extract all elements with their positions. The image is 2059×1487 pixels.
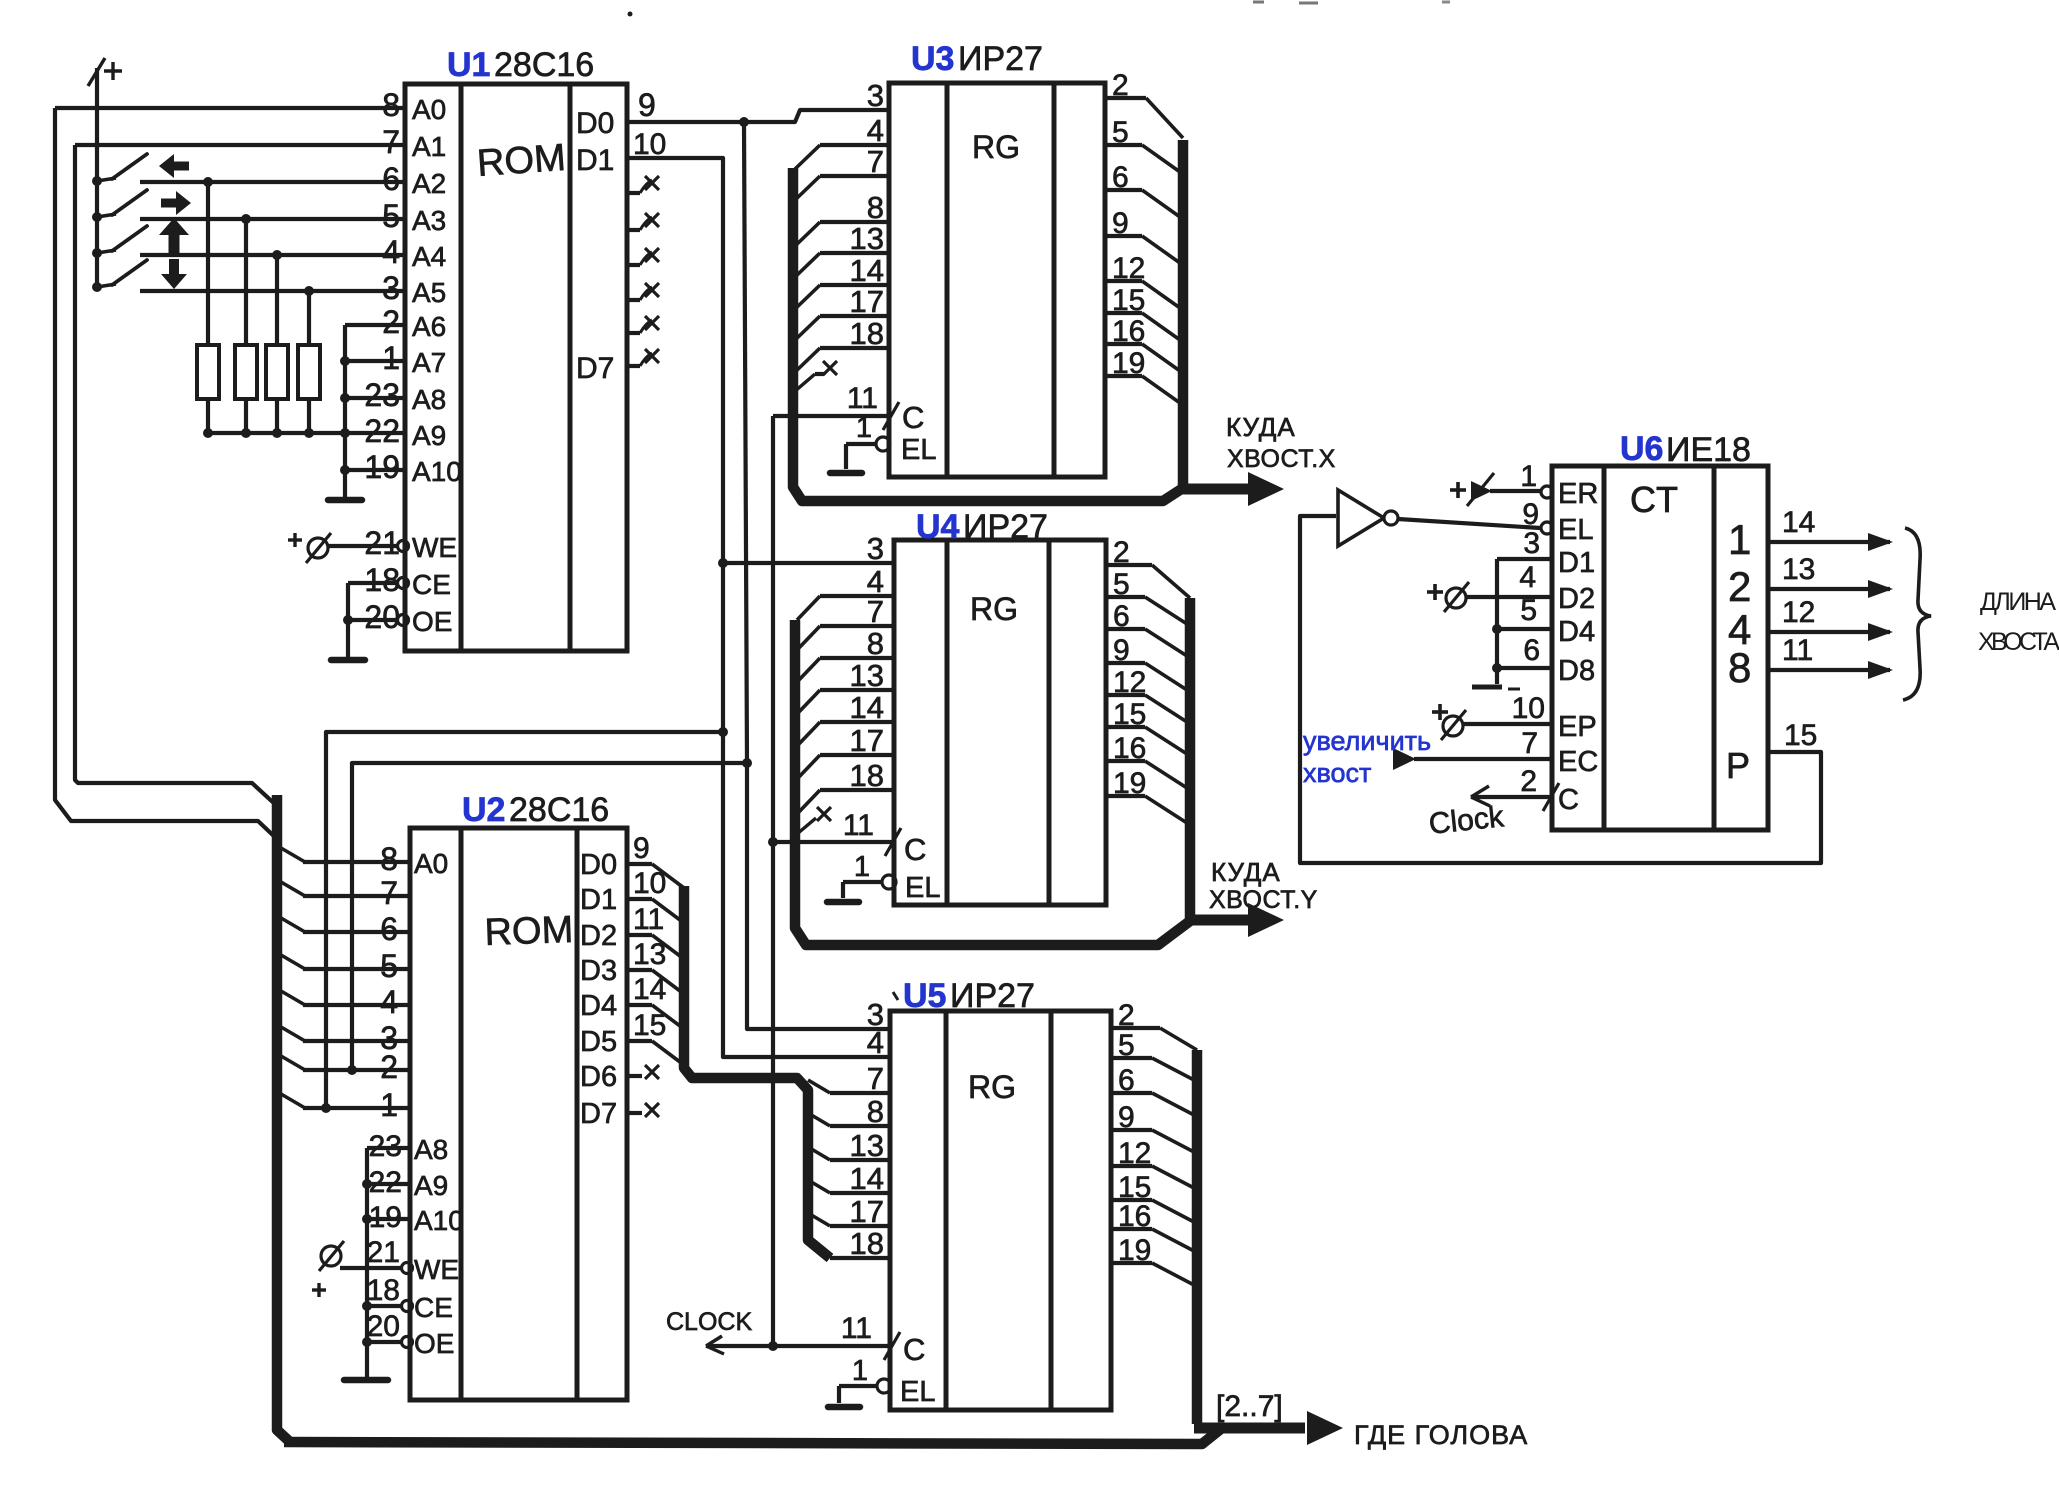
U2 pin 23 label A8 — [367, 1130, 448, 1165]
U4 pin 11 C label — [843, 809, 927, 867]
U2 pin 22 label A9 — [362, 1166, 448, 1201]
svg-text:WE: WE — [414, 1254, 459, 1285]
svg-text:7: 7 — [867, 594, 884, 629]
slash at U6 C pin — [1543, 783, 1559, 811]
wire U1 A6-A10 ground tie vertical — [343, 325, 347, 497]
label ИР27 (U5 part value) — [950, 977, 1035, 1015]
resistor R4 (pull resistor) — [298, 291, 320, 433]
svg-text:A10: A10 — [414, 1205, 464, 1236]
wire U6 D2 pin 4 — [1466, 561, 1552, 597]
svg-text:21: 21 — [364, 525, 400, 561]
svg-text:15: 15 — [1112, 284, 1145, 317]
U3 unused input stub (x) — [794, 361, 837, 392]
ground dash (U6 D1/D4/D8) — [1472, 687, 1520, 689]
wire U1 WE pin 21 — [328, 544, 398, 548]
label RG (U3 function) — [972, 129, 1020, 165]
label ИР27 (U3 part value) — [958, 40, 1043, 78]
U5 pin 4 input stub — [867, 1025, 884, 1060]
wire U1 pin19 A10 stub — [340, 465, 405, 475]
U3 pin 5 output stub — [1105, 116, 1180, 172]
U4 pin 14 input stub — [797, 690, 894, 746]
svg-text:WE: WE — [412, 532, 457, 563]
wire resistor common rail to U1 pin 22 (A9) — [204, 431, 405, 435]
arrow icon DOWN (direction label) — [161, 259, 187, 289]
junction node A5/resistor — [304, 286, 314, 296]
junction CLOCK at U4 pin 11 — [768, 837, 778, 847]
junction A9 rail / tie chain — [340, 428, 350, 438]
label ГДЕ ГОЛОВА (net name) — [1354, 1420, 1528, 1450]
svg-text:D3: D3 — [580, 955, 617, 987]
svg-text:CE: CE — [414, 1292, 453, 1323]
svg-text:1: 1 — [382, 340, 400, 376]
svg-text:3: 3 — [382, 270, 400, 306]
svg-text:13: 13 — [850, 658, 884, 693]
inversion bubble U2 OE — [402, 1337, 413, 1348]
svg-text:D7: D7 — [580, 1098, 617, 1130]
svg-text:D2: D2 — [580, 920, 617, 952]
U1 unused output stub (x) at y=193 — [627, 176, 659, 193]
label U3 (refdes) — [911, 40, 954, 78]
resistor R3 (pull resistor) — [266, 255, 288, 433]
svg-text:ХВОСТ.Y: ХВОСТ.Y — [1209, 886, 1318, 914]
label 28C16 (U2 part value) — [509, 791, 609, 829]
U3 pin 1 EL — [846, 412, 936, 469]
svg-text:14: 14 — [850, 253, 884, 288]
bus bottom ГДЕ ГОЛОВА run (thick) — [284, 1428, 1222, 1444]
U5 pin 14 input stub — [808, 1161, 890, 1196]
svg-text:D7: D7 — [576, 352, 614, 385]
svg-text:1: 1 — [852, 1355, 868, 1387]
svg-text:C: C — [902, 400, 924, 435]
bus U4 output side (thick loop right) — [1185, 598, 1196, 925]
svg-text:A7: A7 — [412, 347, 446, 378]
junction U2 pin2 riser — [347, 1065, 357, 1075]
U6 pin label C — [1558, 784, 1579, 816]
svg-text:A1: A1 — [412, 131, 446, 162]
U3 pin 16 output stub — [1105, 315, 1180, 371]
label CLOCK (net name) — [666, 1308, 752, 1336]
svg-text:D2: D2 — [1558, 583, 1595, 615]
svg-text:11: 11 — [847, 382, 878, 415]
svg-text:13: 13 — [1782, 553, 1815, 586]
U1 unused output stub (x) at y=265 — [627, 248, 659, 265]
U6 output weight 1 pin 14 — [1728, 506, 1893, 563]
svg-text:12: 12 — [1782, 596, 1815, 629]
U4 pin 17 input stub — [797, 723, 894, 779]
U2 pin 6 address stub — [281, 911, 410, 947]
U1 pin 20 label OE — [364, 599, 452, 637]
U3 pin 6 output stub — [1105, 161, 1180, 217]
label ДЛИНА ХВОСТА (output name) — [1978, 588, 2059, 656]
U1 pin 22 label A9 — [364, 413, 446, 451]
U4 pin 9 output stub — [1106, 634, 1187, 690]
label U1 (refdes) — [447, 46, 490, 84]
svg-text:9: 9 — [1112, 207, 1129, 240]
label ИЕ18 (U6 part value) — [1666, 431, 1751, 469]
svg-text:C: C — [903, 1332, 925, 1367]
svg-text:6: 6 — [382, 161, 400, 197]
U2 pin 7 address stub — [281, 875, 410, 911]
inversion bubble U1 CE — [398, 578, 409, 589]
svg-text:A6: A6 — [412, 311, 446, 342]
label [2..7] (bus width) — [1216, 1390, 1283, 1423]
resistor R2 (pull resistor) — [235, 219, 257, 433]
U5 pin 6 output stub — [1111, 1064, 1194, 1115]
svg-text:19: 19 — [364, 449, 400, 485]
wire U6 ER pin 1 — [1490, 460, 1540, 493]
svg-text:RG: RG — [968, 1069, 1016, 1105]
svg-text:19: 19 — [1112, 347, 1145, 380]
U3 pin 17 input stub — [795, 284, 889, 340]
switch S2 (joystick contact) — [92, 190, 147, 222]
svg-text:увеличить: увеличить — [1303, 726, 1431, 756]
U3 pin 13 input stub — [795, 221, 889, 277]
U3 pin 2 output stub — [1105, 69, 1183, 138]
wire net A4 (switch 3 to U1 pin 4) — [140, 253, 405, 257]
U1 pin 10 D1 label — [576, 128, 666, 177]
svg-text:EL: EL — [900, 1376, 935, 1408]
svg-text:3: 3 — [1523, 527, 1540, 560]
svg-text:18: 18 — [850, 1226, 884, 1261]
svg-text:7: 7 — [867, 1061, 884, 1096]
U3 pin 14 input stub — [795, 253, 889, 309]
svg-text:A0: A0 — [412, 94, 446, 125]
bus U3 output side (thick loop right) — [1178, 140, 1189, 492]
svg-text:4: 4 — [867, 1025, 884, 1060]
svg-text:U5: U5 — [903, 977, 946, 1015]
wire net D0: U1 pin9 to U3 pin3 — [627, 110, 889, 122]
svg-text:EL: EL — [1558, 514, 1593, 546]
U5 pin 15 output stub — [1111, 1171, 1194, 1222]
wire U1 pin23 A8 stub — [340, 393, 405, 403]
wire U1 CE pin 18 — [348, 581, 398, 585]
label 28C16 (U1 part value) — [494, 46, 594, 84]
ground symbol (U1 address tie) — [328, 497, 362, 504]
inversion bubble U6 EL — [1541, 522, 1553, 534]
svg-text:A4: A4 — [412, 241, 446, 272]
svg-text:20: 20 — [364, 599, 400, 635]
U5 pin 11 C label — [841, 1312, 926, 1367]
svg-text:RG: RG — [972, 129, 1020, 165]
U3 pin 9 output stub — [1105, 207, 1180, 263]
power +5V symbol at U2 WE — [312, 1241, 344, 1297]
svg-text:A8: A8 — [412, 384, 446, 415]
U2 pin 13 output D3 — [580, 938, 684, 994]
svg-text:12: 12 — [1118, 1137, 1151, 1170]
svg-text:2: 2 — [1118, 999, 1135, 1032]
svg-text:ER: ER — [1558, 478, 1598, 510]
svg-text:13: 13 — [633, 938, 666, 971]
wire net A5 (switch 4 to U1 pin 3) — [140, 289, 405, 293]
svg-text:5: 5 — [1520, 594, 1537, 627]
svg-text:7: 7 — [1521, 727, 1538, 760]
svg-text:14: 14 — [633, 973, 666, 1006]
svg-text:ИР27: ИР27 — [950, 977, 1035, 1015]
junction resistor R4 bottom — [304, 428, 314, 438]
svg-text:U3: U3 — [911, 40, 954, 78]
label U6 (refdes) — [1620, 430, 1663, 468]
U2 pin 14 output D4 — [580, 973, 684, 1029]
svg-text:A9: A9 — [414, 1170, 448, 1201]
junction node A3/resistor — [241, 214, 251, 224]
svg-text:2: 2 — [380, 1049, 398, 1085]
svg-text:18: 18 — [850, 758, 884, 793]
svg-text:6: 6 — [1112, 161, 1129, 194]
svg-text:ДЛИНА: ДЛИНА — [1980, 588, 2056, 616]
inversion bubble U2 CE — [402, 1301, 413, 1312]
bus U5 output side (thick right) — [1192, 1050, 1203, 1424]
wire net A2 (switch 1 to U1 pin 6) — [140, 180, 405, 184]
svg-text:19: 19 — [1113, 767, 1146, 800]
svg-text:22: 22 — [364, 413, 400, 449]
U4 pin 4 input stub — [797, 564, 894, 620]
U4 pin 12 output stub — [1106, 666, 1187, 722]
svg-text:23: 23 — [369, 1130, 402, 1163]
IC U6 ИЕ18 counter body — [1552, 466, 1768, 830]
U1 pin 3 label A5 — [382, 270, 446, 308]
svg-text:1: 1 — [1520, 460, 1537, 493]
U3 pin 12 output stub — [1105, 252, 1180, 308]
wire net D1: U1 pin10 right then down — [627, 158, 890, 1057]
svg-text:A9: A9 — [412, 420, 446, 451]
wire U2 OE pin 20 — [362, 1310, 454, 1359]
svg-text:12: 12 — [1113, 666, 1146, 699]
svg-text:D0: D0 — [576, 107, 614, 140]
label U5 (refdes) — [903, 977, 946, 1015]
wire net A3 (switch 2 to U1 pin 5) — [140, 217, 405, 221]
wire net A0 (to U1 pin 8) — [55, 106, 405, 110]
IC U2 28C16 ROM body — [410, 828, 627, 1400]
U2 pin 2 address stub — [281, 1049, 410, 1085]
svg-text:11: 11 — [1782, 634, 1813, 667]
wire U1 CE-OE tie vertical — [346, 583, 350, 660]
svg-text:ГДЕ ГОЛОВА: ГДЕ ГОЛОВА — [1354, 1420, 1528, 1450]
svg-text:14: 14 — [1782, 506, 1815, 539]
svg-text:A0: A0 — [414, 848, 448, 879]
svg-text:14: 14 — [850, 690, 884, 725]
svg-text:4: 4 — [382, 234, 400, 270]
svg-text:EL: EL — [901, 434, 936, 466]
inversion bubble U6 ER — [1541, 486, 1553, 498]
svg-text:9: 9 — [638, 87, 656, 123]
label U2 (refdes) — [462, 791, 505, 829]
svg-text:16: 16 — [1118, 1200, 1151, 1233]
U2 pin 11 output D2 — [580, 903, 684, 959]
U4 pin 2 output stub — [1106, 536, 1190, 598]
svg-text:U1: U1 — [447, 46, 490, 84]
svg-text:5: 5 — [382, 198, 400, 234]
svg-text:U6: U6 — [1620, 430, 1663, 468]
U5 pin 7 input stub — [808, 1061, 890, 1096]
junction D0 / U2-A6 feeder — [742, 758, 752, 768]
arrowhead CLOCK (points left) — [706, 1336, 724, 1354]
svg-text:13: 13 — [850, 1128, 884, 1163]
U1 pin 1 label A7 — [382, 340, 446, 378]
power +5V symbol at U1 WE — [288, 533, 331, 563]
wire inverter out to U6 EL — [1398, 519, 1540, 528]
wire U1 OE pin 20 — [343, 615, 398, 625]
svg-text:ИР27: ИР27 — [958, 40, 1043, 78]
svg-text:21: 21 — [367, 1236, 400, 1269]
svg-text:5: 5 — [380, 948, 398, 984]
label ROM (U1 function) — [476, 137, 567, 185]
svg-text:ROM: ROM — [476, 137, 567, 185]
svg-text:8: 8 — [867, 1094, 884, 1129]
svg-text:8: 8 — [1728, 644, 1751, 691]
svg-text:17: 17 — [850, 284, 884, 319]
svg-text:19: 19 — [1118, 1234, 1151, 1267]
U4 unused input stub (x) — [797, 807, 831, 834]
U6 output weight 4 pin 12 — [1728, 596, 1893, 653]
U2 pin 19 label A10 — [362, 1201, 464, 1236]
power +5V symbol at U6 ER — [1450, 473, 1494, 506]
U2 pin 9 output D0 — [580, 832, 684, 888]
junction D0 branch — [739, 117, 749, 127]
IC U5 ИР27 register body — [890, 1011, 1111, 1410]
U4 pin 6 output stub — [1106, 600, 1187, 656]
svg-text:U4: U4 — [916, 508, 960, 546]
junction resistor R3 bottom — [272, 428, 282, 438]
svg-text:D5: D5 — [580, 1026, 617, 1058]
U4 pin 3 input stub — [867, 531, 884, 566]
U3 pin 11 C label — [847, 382, 925, 435]
svg-text:9: 9 — [1118, 1101, 1135, 1134]
label Clock (handwritten) — [1427, 800, 1506, 841]
svg-text:4: 4 — [1519, 561, 1536, 594]
label увеличить хвост (input name) — [1303, 726, 1538, 788]
svg-text:D1: D1 — [580, 884, 617, 916]
svg-text:6: 6 — [1118, 1064, 1135, 1097]
U4 pin 8 input stub — [797, 626, 894, 682]
input arrow увеличить хвост (to U6 EC) — [1393, 748, 1552, 770]
wire U2-A7 feeder (pin1 riser to D1 vertical) — [326, 732, 723, 1108]
U2 pin 3 address stub — [281, 1020, 410, 1056]
svg-text:ХВОСТ.Х: ХВОСТ.Х — [1227, 445, 1336, 473]
U4 pin 13 input stub — [797, 658, 894, 714]
U1 unused output stub (x) at y=366 — [627, 349, 659, 366]
svg-text:EL: EL — [905, 872, 940, 904]
svg-text:8: 8 — [867, 190, 884, 225]
svg-text:A8: A8 — [414, 1134, 448, 1165]
svg-text:[2..7]: [2..7] — [1216, 1390, 1283, 1423]
svg-text:A5: A5 — [412, 277, 446, 308]
svg-text:A2: A2 — [412, 168, 446, 199]
svg-text:2: 2 — [1728, 563, 1751, 610]
junction resistor R1 bottom — [203, 428, 213, 438]
svg-text:8: 8 — [867, 626, 884, 661]
svg-text:12: 12 — [1112, 252, 1145, 285]
U1 pin 19 label A10 — [364, 449, 461, 487]
label ИР27 (U4 part value) — [963, 508, 1048, 546]
svg-text:20: 20 — [367, 1310, 400, 1343]
U6 output P pin 15 — [1726, 719, 1817, 786]
svg-text:6: 6 — [1523, 634, 1540, 667]
IC U4 ИР27 register body — [894, 540, 1106, 905]
svg-text:C: C — [904, 832, 926, 867]
U6 pin label D8 — [1558, 655, 1595, 687]
U1 unused output stub (x) at y=333 — [627, 316, 659, 333]
U4 pin 7 input stub — [797, 594, 894, 650]
U6 output weight 2 pin 13 — [1728, 553, 1893, 610]
wire U6 D4 pin 5 — [1492, 594, 1552, 634]
U5 pin 8 input stub — [808, 1094, 890, 1129]
U5 pin 13 input stub — [808, 1128, 890, 1163]
U4 pin 18 input stub — [797, 758, 894, 814]
U2 pin 8 address stub — [281, 841, 410, 877]
svg-text:1: 1 — [380, 1087, 398, 1123]
svg-text:D4: D4 — [1558, 616, 1595, 648]
U2 pin 15 output D5 — [580, 1009, 684, 1065]
IC U1 28C16 ROM body — [405, 84, 627, 651]
svg-text:16: 16 — [1112, 315, 1145, 348]
svg-text:11: 11 — [841, 1312, 872, 1345]
wire U1 pin2 A6 stub — [345, 323, 405, 327]
U4 pin 16 output stub — [1106, 732, 1187, 788]
svg-text:19: 19 — [369, 1201, 402, 1234]
U3 pin 15 output stub — [1105, 284, 1180, 340]
svg-text:2: 2 — [1520, 765, 1537, 798]
wire U6 D1-D4-D8 tie vertical — [1495, 559, 1499, 684]
power +5V tap (top left, slashed) — [88, 58, 122, 290]
svg-text:18: 18 — [364, 562, 400, 598]
U5 pin 19 output stub — [1111, 1234, 1194, 1285]
U1 pin 7 label A1 — [382, 124, 446, 162]
svg-text:15: 15 — [633, 1009, 666, 1042]
junction D1 branch to U4 pin3 — [718, 558, 728, 568]
U1 pin 9 D0 label — [576, 87, 656, 140]
svg-text:9: 9 — [633, 832, 650, 865]
arrow icon RIGHT (direction label) — [161, 191, 191, 215]
svg-text:ИЕ18: ИЕ18 — [1666, 431, 1751, 469]
arrow icon UP (direction label) — [159, 218, 189, 254]
svg-text:11: 11 — [633, 903, 664, 936]
svg-text:18: 18 — [367, 1274, 400, 1307]
U1 pin 8 label A0 — [382, 87, 446, 125]
svg-text:ХВОСТА: ХВОСТА — [1978, 628, 2059, 656]
wire U6 EP pin 10 — [1463, 692, 1552, 725]
wire CLOCK to U3 pin 11 — [773, 414, 889, 418]
ground symbol (U2 tie chain) — [344, 1377, 388, 1384]
stray specks (scan artifacts, top edge) — [628, 2, 1451, 17]
label КУДА ХВОСТ.Y (net name) — [1209, 857, 1318, 914]
wire U6 D1 pin 3 — [1497, 527, 1552, 560]
ground symbol (U4 EL) — [827, 899, 859, 906]
arrow icon LEFT (direction label) — [159, 154, 189, 178]
svg-text:22: 22 — [369, 1166, 402, 1199]
U1 D7 label — [576, 352, 614, 385]
svg-text:10: 10 — [633, 867, 666, 900]
junction D1 / U2-A7 feeder — [718, 727, 728, 737]
U6 pin label EL — [1558, 514, 1593, 546]
U3 pin 18 input stub — [795, 316, 889, 372]
inverter gate (NOT, P feedback) — [1338, 490, 1398, 546]
U6 pin label ER — [1558, 478, 1598, 510]
IC U3 ИР27 register body — [889, 83, 1105, 477]
U6 pin label D1 — [1558, 547, 1595, 579]
U3 pin 8 input stub — [795, 190, 889, 246]
U5 pin 2 output stub — [1111, 999, 1197, 1050]
wire U2 CE pin 18 — [362, 1274, 453, 1323]
ground symbol (U3 EL) — [830, 470, 862, 477]
wire U2-A6 feeder (pin2 riser to D0 vertical) — [352, 763, 747, 1070]
svg-text:КУДА: КУДА — [1226, 412, 1296, 442]
U1 pin 21 label WE — [364, 525, 457, 563]
svg-text:6: 6 — [380, 911, 398, 947]
svg-text:D6: D6 — [580, 1061, 617, 1093]
svg-text:RG: RG — [970, 591, 1018, 627]
U3 pin 4 input stub — [795, 113, 889, 169]
junction node A2/resistor — [203, 177, 213, 187]
